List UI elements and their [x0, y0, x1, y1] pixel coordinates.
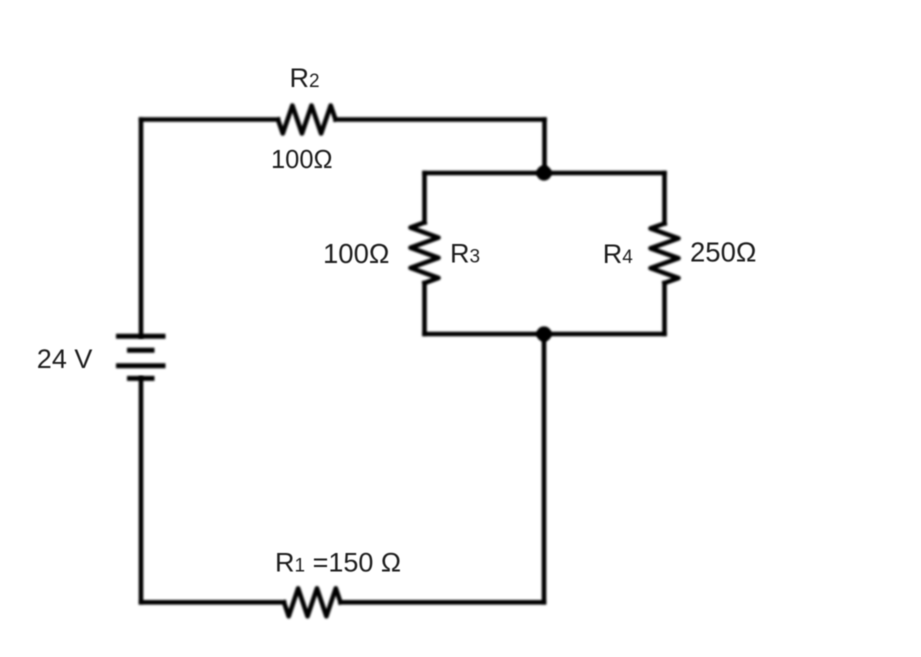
resistor R2 [278, 106, 336, 134]
wire R4 branch top [662, 173, 667, 224]
battery long plate 1 [116, 334, 166, 339]
wire R3 branch top [422, 173, 427, 223]
svg-text:R3: R3 [450, 239, 480, 269]
resistor R1 [284, 588, 341, 616]
label R3 [450, 239, 480, 269]
wire top-right vertical drop to node A [542, 120, 547, 174]
resistor R4 [651, 224, 679, 284]
battery B1 plates [116, 336, 166, 378]
node B (bottom junction dot) [536, 326, 551, 341]
wire R3 branch bottom [422, 283, 427, 334]
label R4 [603, 239, 634, 269]
wire top-right horizontal (R2 to corner) [336, 117, 545, 122]
node A (top junction dot) [536, 165, 551, 180]
label R1 =150 Ω (R1 value) [275, 548, 401, 578]
wire R4 branch bottom [662, 283, 667, 334]
wire bottom-right horizontal [341, 600, 545, 605]
label 250Ω (R4 value) [690, 237, 756, 268]
wire left vertical (bottom wire to battery -) [139, 379, 144, 603]
svg-text:R1 =150 Ω: R1 =150 Ω [275, 548, 401, 578]
battery short plate 2 [127, 376, 155, 381]
svg-text:250Ω: 250Ω [690, 237, 756, 268]
resistor R3 [411, 223, 439, 284]
svg-text:R4: R4 [603, 239, 634, 269]
svg-text:R2: R2 [290, 63, 320, 93]
wire parallel top rail [425, 171, 665, 176]
label 24 V (battery voltage) [37, 344, 93, 374]
svg-text:24 V: 24 V [37, 344, 93, 374]
wire top-left horizontal (battery + to R2) [141, 117, 278, 122]
label 100Ω (R2 value) [271, 146, 333, 174]
svg-text:100Ω: 100Ω [271, 146, 333, 174]
svg-text:100Ω: 100Ω [323, 238, 389, 269]
wire parallel bottom rail [425, 332, 665, 337]
wire left vertical (battery + up to top wire) [139, 120, 144, 337]
wire node B down to bottom rail [542, 334, 547, 602]
label 100Ω (R3 value) [323, 238, 389, 269]
battery short plate 1 [127, 348, 155, 353]
wire bottom-left horizontal [141, 600, 284, 605]
battery long plate 2 [116, 363, 166, 368]
label R2 [290, 63, 320, 93]
